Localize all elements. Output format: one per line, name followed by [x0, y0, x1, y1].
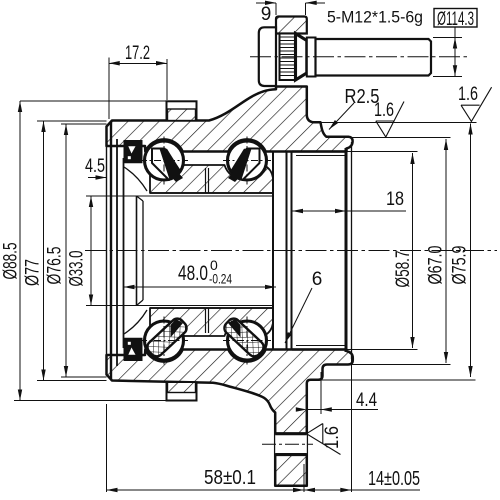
svg-text:Ø88.5: Ø88.5	[1, 243, 22, 280]
svg-text:5-M12*1.5-6g: 5-M12*1.5-6g	[327, 8, 423, 27]
svg-text:17.2: 17.2	[125, 43, 150, 64]
svg-text:-0.24: -0.24	[209, 271, 232, 287]
svg-text:58±0.1: 58±0.1	[204, 467, 256, 489]
svg-text:4.5: 4.5	[85, 156, 105, 177]
svg-text:9: 9	[261, 4, 272, 25]
svg-text:Ø76.5: Ø76.5	[45, 247, 66, 285]
svg-text:14±0.05: 14±0.05	[368, 468, 420, 490]
svg-text:Ø67.0: Ø67.0	[426, 246, 447, 285]
svg-text:1.6: 1.6	[322, 426, 343, 449]
svg-text:18: 18	[386, 189, 404, 210]
svg-text:6: 6	[312, 269, 323, 290]
svg-text:Ø58.7: Ø58.7	[393, 251, 414, 288]
svg-text:Ø75.9: Ø75.9	[450, 246, 471, 285]
svg-text:Ø114.3: Ø114.3	[437, 9, 474, 30]
svg-text:Ø33.0: Ø33.0	[67, 251, 88, 287]
svg-text:1.6: 1.6	[374, 100, 394, 121]
svg-text:1.6: 1.6	[458, 84, 478, 105]
svg-text:48.0: 48.0	[178, 262, 208, 285]
svg-text:Ø77: Ø77	[23, 259, 44, 286]
svg-text:4.4: 4.4	[356, 390, 377, 411]
